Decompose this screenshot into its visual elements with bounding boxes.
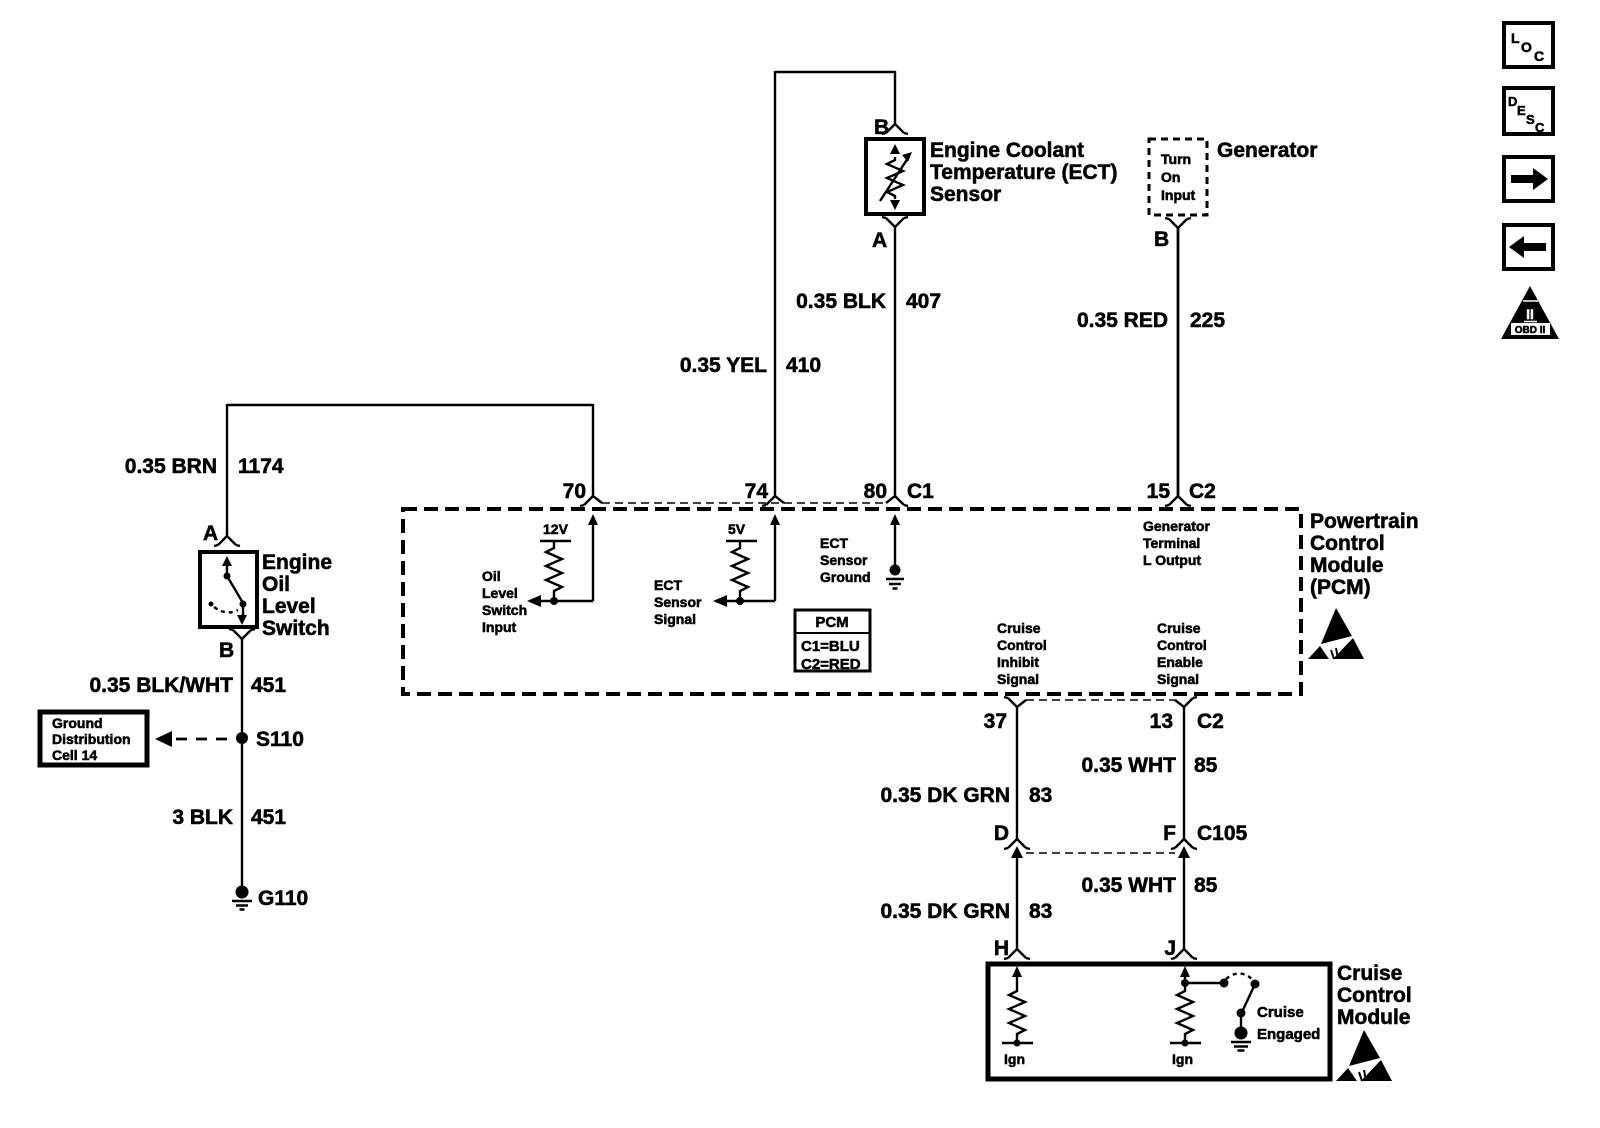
svg-text:12V: 12V bbox=[543, 521, 569, 537]
svg-text:L: L bbox=[1511, 30, 1520, 46]
svg-text:Control: Control bbox=[1157, 637, 1207, 653]
svg-text:451: 451 bbox=[251, 674, 286, 697]
svg-text:On: On bbox=[1161, 169, 1180, 185]
svg-text:Engine Coolant: Engine Coolant bbox=[930, 139, 1084, 162]
svg-text:83: 83 bbox=[1029, 784, 1052, 807]
cruise engaged switch bbox=[1181, 974, 1260, 1051]
wire 0.35 DK GRN 83 (upper) bbox=[1016, 707, 1018, 839]
ESD sensitivity symbol (cruise control module) bbox=[1336, 1030, 1392, 1081]
cruise module internal: pin J resistor to Ign bbox=[1170, 966, 1201, 1047]
svg-text:A: A bbox=[203, 522, 218, 545]
svg-text:OBD II: OBD II bbox=[1515, 325, 1546, 336]
svg-text:Engaged: Engaged bbox=[1257, 1026, 1320, 1043]
svg-text:C105: C105 bbox=[1197, 822, 1248, 845]
svg-text:Oil: Oil bbox=[482, 568, 501, 584]
svg-text:0.35 WHT: 0.35 WHT bbox=[1081, 754, 1176, 777]
svg-text:83: 83 bbox=[1029, 900, 1052, 923]
ESD sensitivity symbol (PCM) bbox=[1308, 608, 1364, 659]
svg-text:5V: 5V bbox=[728, 521, 746, 537]
svg-text:O: O bbox=[1521, 39, 1532, 55]
svg-text:Signal: Signal bbox=[654, 611, 696, 627]
wire 0.35 YEL 410: top horizontal run bbox=[775, 71, 895, 73]
svg-text:70: 70 bbox=[563, 480, 586, 503]
svg-text:Module: Module bbox=[1310, 554, 1384, 577]
PCM dashed outline box bbox=[403, 509, 1301, 694]
svg-text:Cruise: Cruise bbox=[997, 620, 1041, 636]
svg-text:D: D bbox=[994, 822, 1009, 845]
svg-text:Ground: Ground bbox=[820, 569, 871, 585]
svg-text:C: C bbox=[1535, 120, 1545, 135]
svg-text:Level: Level bbox=[482, 585, 518, 601]
svg-text:0.35 WHT: 0.35 WHT bbox=[1081, 874, 1176, 897]
connector C105 pin D flare and arrow bbox=[1004, 839, 1030, 949]
svg-text:Input: Input bbox=[482, 619, 517, 635]
svg-text:Level: Level bbox=[262, 595, 316, 618]
svg-text:A: A bbox=[872, 229, 887, 252]
connector flare at switch pin A bbox=[214, 536, 240, 546]
svg-text:Turn: Turn bbox=[1161, 151, 1191, 167]
svg-text:B: B bbox=[219, 639, 234, 662]
PCM internal: oil level switch input wire with left arrow bbox=[527, 595, 593, 607]
icon button LOC (hyperlink box, top right) bbox=[1504, 23, 1553, 67]
icon button next-page right arrow bbox=[1504, 157, 1553, 201]
svg-text:37: 37 bbox=[984, 710, 1007, 733]
svg-text:Switch: Switch bbox=[482, 602, 527, 618]
svg-text:Cruise: Cruise bbox=[1157, 620, 1201, 636]
svg-text:ECT: ECT bbox=[654, 577, 682, 593]
wire segment to ECT sensor pin B bbox=[894, 71, 896, 124]
wire 0.35 RED 225 to PCM pin 15 bbox=[1177, 228, 1180, 496]
svg-text:0.35 YEL: 0.35 YEL bbox=[680, 354, 767, 377]
svg-text:C1=BLU: C1=BLU bbox=[801, 638, 860, 655]
PCM internal: pin 70 stub with up arrow bbox=[588, 514, 598, 601]
svg-text:85: 85 bbox=[1194, 874, 1218, 897]
connector flare at PCM pin 80 bbox=[886, 496, 908, 506]
svg-text:85: 85 bbox=[1194, 754, 1218, 777]
cruise module internal: pin H resistor to Ign bbox=[1002, 966, 1033, 1047]
PCM internal: 5V pull-up resistor bbox=[726, 541, 757, 605]
svg-text:J: J bbox=[1164, 937, 1176, 960]
connector flare at cruise module pin J bbox=[1171, 949, 1197, 959]
PCM internal: 12V pull-up resistor bbox=[540, 541, 571, 605]
svg-text:B: B bbox=[1154, 228, 1169, 251]
svg-text:0.35 BRN: 0.35 BRN bbox=[125, 455, 217, 478]
svg-text:F: F bbox=[1163, 822, 1176, 845]
svg-text:B: B bbox=[874, 116, 889, 139]
connector C105 thin dashed line bbox=[1026, 852, 1175, 854]
PCM internal: pin 80 ECT sensor ground bbox=[886, 514, 904, 589]
wire 0.35 BLK/WHT 451 bbox=[241, 639, 243, 732]
svg-text:0.35 RED: 0.35 RED bbox=[1077, 309, 1168, 332]
svg-text:PCM: PCM bbox=[815, 614, 848, 631]
arrow from ground distribution box bbox=[155, 731, 172, 747]
Engine Oil Level Switch box bbox=[200, 552, 257, 627]
svg-text:S110: S110 bbox=[256, 728, 304, 751]
svg-text:0.35 BLK: 0.35 BLK bbox=[796, 290, 886, 313]
connector flare at PCM pin 74 bbox=[762, 496, 784, 506]
svg-text:Engine: Engine bbox=[262, 551, 332, 574]
svg-text:D: D bbox=[1508, 94, 1517, 109]
svg-text:3 BLK: 3 BLK bbox=[172, 806, 233, 829]
connector flare at PCM pin 15 bbox=[1165, 496, 1191, 506]
svg-text:Module: Module bbox=[1337, 1006, 1411, 1029]
svg-text:Sensor: Sensor bbox=[654, 594, 702, 610]
svg-text:13: 13 bbox=[1150, 710, 1173, 733]
svg-text:Temperature (ECT): Temperature (ECT) bbox=[930, 161, 1117, 184]
svg-text:0.35 DK GRN: 0.35 DK GRN bbox=[880, 900, 1010, 923]
connector C105 pin F flare and arrow bbox=[1171, 839, 1197, 949]
icon button previous-page left arrow bbox=[1504, 225, 1553, 269]
svg-text:Cruise: Cruise bbox=[1257, 1004, 1304, 1021]
svg-text:Generator: Generator bbox=[1217, 139, 1317, 162]
connector flare at PCM pin 70 bbox=[580, 496, 602, 506]
svg-text:Inhibit: Inhibit bbox=[997, 654, 1039, 670]
oil level switch symbol bbox=[209, 556, 248, 625]
PCM internal: pin 74 stub with up arrow bbox=[770, 514, 780, 601]
dashed reference wire to S110 bbox=[176, 738, 236, 741]
svg-text:Terminal: Terminal bbox=[1143, 535, 1200, 551]
Generator dashed box (Turn On Input) bbox=[1149, 139, 1207, 215]
connector flare at ECT pin A bbox=[882, 217, 908, 227]
svg-text:C2=RED: C2=RED bbox=[801, 656, 861, 673]
svg-text:Control: Control bbox=[1310, 532, 1385, 555]
connector flare at ECT pin B bbox=[882, 124, 908, 134]
svg-text:Control: Control bbox=[997, 637, 1047, 653]
svg-text:0.35 BLK/WHT: 0.35 BLK/WHT bbox=[89, 674, 233, 697]
connector flare at PCM pin 13 bbox=[1175, 697, 1197, 707]
svg-text:Sensor: Sensor bbox=[820, 552, 868, 568]
svg-text:Oil: Oil bbox=[262, 573, 290, 596]
svg-text:Control: Control bbox=[1337, 984, 1412, 1007]
svg-text:Switch: Switch bbox=[262, 617, 330, 640]
svg-text:E: E bbox=[1517, 103, 1526, 118]
svg-text:H: H bbox=[994, 937, 1009, 960]
svg-text:S: S bbox=[1526, 112, 1535, 127]
Ground Distribution Cell 14 reference box bbox=[40, 712, 147, 765]
wire 0.35 BRN 1174: horizontal run to PCM pin 70 bbox=[227, 404, 593, 406]
connector flare at cruise module pin H bbox=[1004, 949, 1030, 959]
splice node S110 bbox=[236, 732, 248, 744]
connector C1 thin dashed line across pins 70/74/80 bbox=[602, 502, 886, 504]
svg-text:Input: Input bbox=[1161, 187, 1196, 203]
svg-text:80: 80 bbox=[864, 480, 887, 503]
svg-text:Signal: Signal bbox=[1157, 671, 1199, 687]
svg-text:Sensor: Sensor bbox=[930, 183, 1001, 206]
svg-text:0.35 DK GRN: 0.35 DK GRN bbox=[880, 784, 1010, 807]
svg-text:Ground: Ground bbox=[52, 715, 103, 731]
connector flare at Generator pin B bbox=[1165, 218, 1191, 228]
PCM internal: ECT sensor signal wire with left arrow bbox=[713, 595, 775, 607]
svg-text:Distribution: Distribution bbox=[52, 731, 131, 747]
svg-text:Ign: Ign bbox=[1172, 1051, 1193, 1067]
svg-text:II: II bbox=[1526, 306, 1534, 322]
thermistor symbol inside ECT sensor bbox=[880, 144, 912, 210]
svg-text:L Output: L Output bbox=[1143, 552, 1201, 568]
ECT sensor box bbox=[866, 139, 924, 214]
icon OBD II triangle badge bbox=[1501, 286, 1559, 339]
connector flare at PCM pin 37 bbox=[1004, 697, 1026, 707]
connector flare at switch pin B bbox=[229, 629, 255, 639]
svg-text:C2: C2 bbox=[1197, 710, 1224, 733]
svg-text:Ign: Ign bbox=[1004, 1051, 1025, 1067]
wire 0.35 BRN 1174: vertical drop to switch pin A bbox=[226, 404, 228, 536]
svg-text:15: 15 bbox=[1147, 480, 1171, 503]
svg-text:Generator: Generator bbox=[1143, 518, 1210, 534]
svg-text:451: 451 bbox=[251, 806, 286, 829]
svg-text:74: 74 bbox=[745, 480, 769, 503]
svg-text:410: 410 bbox=[786, 354, 821, 377]
svg-text:Enable: Enable bbox=[1157, 654, 1203, 670]
wire segment down to PCM pin 70 bbox=[592, 404, 594, 496]
svg-text:Signal: Signal bbox=[997, 671, 1039, 687]
svg-text:C2: C2 bbox=[1189, 480, 1216, 503]
svg-text:G110: G110 bbox=[258, 887, 308, 910]
ground G110 bbox=[232, 886, 252, 910]
svg-text:Powertrain: Powertrain bbox=[1310, 510, 1419, 533]
wire 0.35 BLK 407 to PCM pin 80 bbox=[894, 227, 896, 496]
svg-text:(PCM): (PCM) bbox=[1310, 576, 1371, 599]
PCM legend box bbox=[795, 610, 870, 673]
svg-text:C1: C1 bbox=[907, 480, 934, 503]
svg-text:C: C bbox=[1534, 48, 1544, 64]
svg-text:ECT: ECT bbox=[820, 535, 848, 551]
connector C2 thin dashed line between pins 37 and 13 bbox=[1026, 699, 1175, 701]
svg-text:225: 225 bbox=[1190, 309, 1225, 332]
svg-text:Cell 14: Cell 14 bbox=[52, 747, 97, 763]
wire 0.35 WHT 85 (upper) bbox=[1183, 707, 1185, 839]
svg-text:407: 407 bbox=[906, 290, 941, 313]
icon button DESC (top right) bbox=[1504, 88, 1553, 135]
svg-text:1174: 1174 bbox=[238, 455, 284, 478]
wire 0.35 YEL 410: vertical drop to PCM pin 74 bbox=[774, 71, 776, 496]
wire 3 BLK 451 bbox=[241, 744, 243, 888]
svg-text:Cruise: Cruise bbox=[1337, 962, 1402, 985]
Cruise Control Module box bbox=[988, 964, 1330, 1079]
